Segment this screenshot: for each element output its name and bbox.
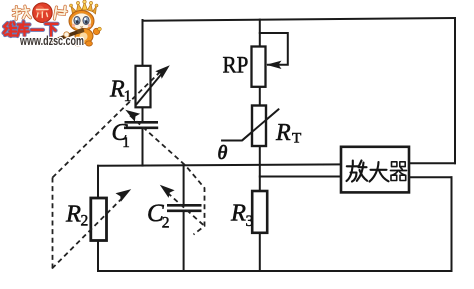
svg-text:R: R [65, 200, 81, 227]
svg-text:1: 1 [122, 135, 130, 151]
svg-text:R: R [109, 76, 125, 102]
svg-text:RP: RP [223, 52, 249, 78]
svg-text:2: 2 [81, 212, 89, 229]
svg-text:1: 1 [124, 88, 132, 105]
svg-text:R: R [230, 200, 246, 227]
svg-text:R: R [275, 120, 291, 146]
svg-text:T: T [292, 129, 302, 146]
svg-text:2: 2 [162, 214, 170, 231]
svg-text:θ: θ [218, 142, 228, 164]
svg-text:3: 3 [246, 213, 254, 230]
svg-text:www.dzsc.com: www.dzsc.com [19, 34, 84, 48]
